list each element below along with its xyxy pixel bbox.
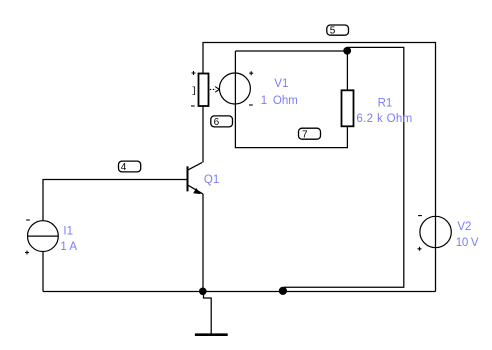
node 7 bubble <box>299 128 321 139</box>
svg-text:Ohm: Ohm <box>273 95 298 107</box>
svg-text:6: 6 <box>214 117 220 128</box>
junction dot node 5 <box>343 47 351 55</box>
node 4 bubble <box>119 161 141 172</box>
sensor box of CCVS V1 (current input) <box>199 74 209 107</box>
wire top horizontal (collector net to V2) <box>203 43 436 217</box>
svg-text:I1: I1 <box>63 225 73 237</box>
wire V2 vertical through circle down to bottom <box>435 217 437 292</box>
svg-text:V2: V2 <box>457 221 471 233</box>
wire R1 top lead <box>346 51 348 90</box>
V2 plus <box>418 247 422 251</box>
wire inner loop top <box>235 50 347 52</box>
wire inner loop (V1 left edge, bottom, R1 right edge) <box>235 51 347 148</box>
dotted arrow to V1 <box>210 88 216 90</box>
svg-text:10 V: 10 V <box>456 237 479 249</box>
I1 minus <box>26 219 30 221</box>
svg-text:4: 4 <box>121 162 127 173</box>
resistor R1 <box>342 90 354 126</box>
junction dot ground <box>199 288 207 296</box>
ground <box>204 292 212 334</box>
sensor box minus <box>191 105 195 107</box>
wire collector vertical <box>202 106 204 163</box>
source V2 circle <box>420 216 451 247</box>
svg-text:V1: V1 <box>274 78 288 90</box>
wire emitter vertical <box>202 194 204 292</box>
V2 minus <box>418 215 422 217</box>
wire bottom horizontal <box>43 291 436 293</box>
svg-text:7: 7 <box>302 129 308 140</box>
current source I1 <box>28 221 59 252</box>
svg-text:1: 1 <box>261 95 267 107</box>
sensor box plus <box>192 71 196 75</box>
svg-text:6.2 k Ohm: 6.2 k Ohm <box>356 113 412 125</box>
node 5 bubble <box>327 25 349 35</box>
transistor Q1 <box>188 162 203 194</box>
junction dot bottom right <box>279 287 287 295</box>
svg-text:1 A: 1 A <box>60 241 77 253</box>
svg-text:]: ] <box>191 85 197 96</box>
I1 plus <box>25 251 29 255</box>
wire left branch I1 top <box>43 180 188 292</box>
svg-text:R1: R1 <box>378 98 393 110</box>
svg-text:5: 5 <box>330 26 336 37</box>
V1 minus <box>249 104 253 106</box>
wire from node 5 junction to bottom node (right bypass) <box>284 47 404 287</box>
source V1 circle <box>219 73 250 104</box>
svg-text:Q1: Q1 <box>204 174 219 186</box>
V1 plus <box>249 71 253 75</box>
node 6 bubble <box>211 116 233 127</box>
